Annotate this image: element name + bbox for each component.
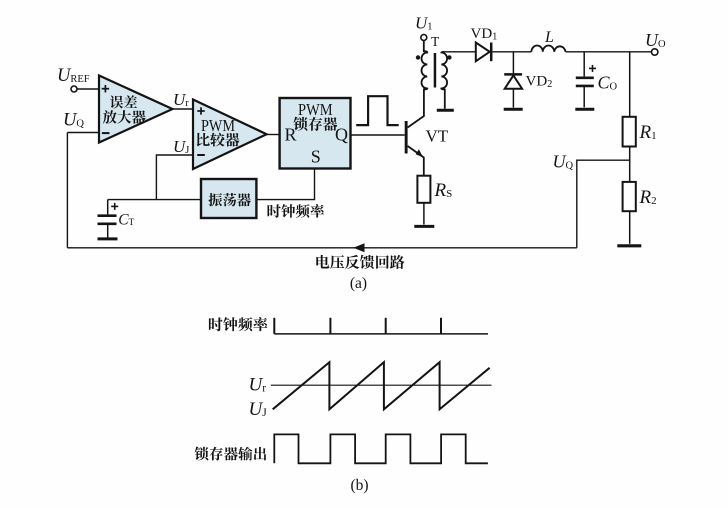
wire voltage feedback bottom rail [67,243,576,252]
label (b) [350,477,368,494]
diode VD_2 [504,52,552,108]
node U_r [173,90,189,109]
label U_J (waveform) [249,399,268,420]
svg-text:PWM: PWM [298,100,333,119]
label U_r (waveform) [249,375,267,396]
pulse waveform symbol at Q output [356,96,399,125]
svg-text:S: S [311,146,321,166]
resistor R_S [417,176,452,225]
label T (transformer) [431,34,440,49]
wire U_Q to error amp inverting input [67,132,99,134]
svg-text:(a): (a) [350,275,367,292]
transformer polarity dots [416,55,452,59]
wire inductor to output [566,51,652,53]
clock waveform [274,318,488,334]
capacitor C_O [576,52,618,108]
ground below transformer secondary [437,109,454,112]
svg-text:(b): (b) [350,477,368,494]
ground below VD_2 [504,108,523,111]
wire U_REF to error amp [77,88,99,90]
resistor R_1 [623,52,657,147]
latch PWM锁存器 (R,S,Q) [280,98,351,169]
ground below C_T [98,237,118,240]
node U_Q tap [553,152,630,248]
inductor L [531,29,565,52]
svg-text:L: L [544,29,554,46]
wire secondary to VD1 [445,51,476,53]
transformer T primary winding [422,41,428,90]
terminal U_O [645,30,666,55]
wire oscillator output to latch S input [256,169,314,200]
wire error amp output to comparator [173,108,194,110]
capacitor C_T [98,200,135,238]
latch output square waveform [274,434,488,463]
svg-text:PWM: PWM [201,116,235,135]
terminal U_1 [415,14,433,41]
ground below R_2 [617,244,641,247]
op-amp error amplifier 误差放大器 [99,76,173,143]
svg-text:VT: VT [426,127,449,146]
wire latch Q output to VT base [351,134,405,136]
sawtooth waveform U_J [273,362,490,409]
terminal U_REF [57,66,90,92]
resistor R_2 [623,182,657,244]
U_r reference line [271,384,492,386]
transistor VT [405,89,449,176]
wire oscillator to C_T [108,199,201,201]
label 时钟频率 (clock) [267,204,324,218]
ground below R_S [414,225,434,228]
wire U_J to comparator inverting input [156,155,193,200]
label 电压反馈回路 [316,255,404,269]
oscillator 振荡器 [201,179,256,218]
node U_Q left [63,111,84,131]
ground below C_O [575,108,594,111]
wire VD1 to inductor [492,51,531,53]
svg-text:R: R [285,124,297,144]
transformer T core [434,53,437,88]
label 锁存器输出 [195,447,267,461]
wire U_Q feedback left vertical [66,133,68,248]
diode VD_1 [471,26,498,61]
op-amp PWM comparator PWM比较器 [193,100,267,170]
wire comparator output to latch R input [267,134,280,136]
wire R1 to R2 [629,147,631,182]
node U_J [173,137,189,156]
label (a) [350,275,367,292]
svg-text:Q: Q [335,124,348,144]
label 时钟频率 (waveform) [209,317,268,331]
transformer T secondary winding [441,52,447,109]
svg-text:T: T [431,34,440,49]
